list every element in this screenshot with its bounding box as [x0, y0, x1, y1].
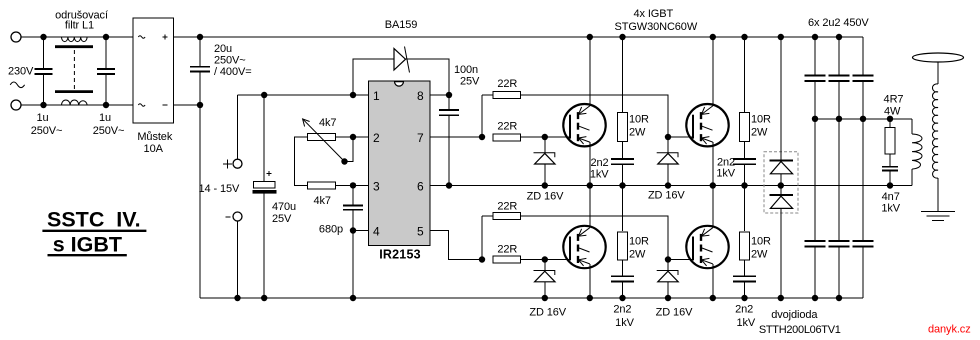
- terminal supply plus: [233, 159, 242, 168]
- inductor L1 top winding: [62, 37, 88, 42]
- node R8 rail: [741, 34, 747, 40]
- capacitor C5 680p: [343, 185, 363, 298]
- diode D3 lower of dvojdioda: [769, 186, 793, 299]
- transistor Q3 IGBT lower-left: [563, 226, 605, 268]
- transistor Q4 IGBT lower-right: [686, 226, 728, 268]
- node B+: [197, 34, 203, 40]
- node 4n7 bottom: [887, 182, 893, 188]
- node ZD4 bottom: [665, 295, 671, 301]
- capacitor bank column 2 bottom 2u2: [829, 241, 850, 298]
- svg-text:1kV: 1kV: [590, 169, 609, 181]
- svg-text:230V: 230V: [8, 66, 34, 78]
- svg-text:10R: 10R: [751, 113, 771, 125]
- pot wiper arrow: [303, 119, 345, 162]
- capacitor bank column 1 bottom 2u2: [805, 241, 826, 298]
- snubber upper-right R8 10R: [740, 37, 750, 159]
- snubber lower-right R10 10R: [740, 186, 750, 276]
- node C9 rail: [619, 295, 625, 301]
- capacitor C11 4n7: [882, 167, 898, 186]
- wire bottom rail: [200, 297, 863, 299]
- node supply minus rail: [234, 295, 240, 301]
- wire plus terminal riser: [237, 95, 239, 159]
- node pin7 split: [479, 134, 485, 140]
- svg-text:danyk.cz: danyk.cz: [928, 324, 971, 336]
- node Q4 emitter rail: [710, 295, 716, 301]
- svg-text:ZD 16V: ZD 16V: [656, 306, 693, 318]
- node Q2 emitter rail: [710, 182, 716, 188]
- node LL gate: [542, 256, 548, 262]
- wire pin1 rail: [238, 94, 369, 96]
- wire pin8 stub: [430, 94, 449, 96]
- transistor Q1 IGBT upper-left: [563, 104, 605, 146]
- svg-text:14 - 15V: 14 - 15V: [199, 183, 241, 195]
- wire R2 to pin3: [336, 184, 369, 186]
- svg-text:20u: 20u: [214, 43, 232, 55]
- wire bottom mains N: [21, 104, 133, 106]
- dual diode dashed box: [764, 152, 798, 213]
- svg-text:1u: 1u: [99, 112, 111, 124]
- svg-text:22R: 22R: [497, 121, 517, 133]
- label 470u plus: [267, 171, 272, 176]
- node bank3 mid: [860, 116, 866, 122]
- wire Q4 collector: [712, 186, 714, 228]
- node dvojdioda bottom rail: [778, 295, 784, 301]
- zener ZD2 16V: [657, 137, 679, 186]
- svg-text:STTH200L06TV1: STTH200L06TV1: [759, 324, 841, 336]
- diode D1 BA159: [394, 47, 410, 73]
- inductor primary winding: [912, 119, 922, 186]
- svg-text:10R: 10R: [629, 113, 649, 125]
- node Q1 collector rail: [587, 34, 593, 40]
- node Q1 emitter rail: [587, 182, 593, 188]
- svg-text:4k7: 4k7: [319, 117, 336, 129]
- svg-text:1kV: 1kV: [615, 317, 634, 329]
- capacitor C9 2n2: [611, 276, 634, 298]
- snubber upper-left R7 10R: [618, 37, 628, 159]
- svg-text:4R7: 4R7: [884, 93, 904, 105]
- svg-text:100n: 100n: [454, 64, 478, 76]
- svg-text:4n7: 4n7: [882, 191, 900, 203]
- svg-text:dvojdioda: dvojdioda: [771, 309, 818, 321]
- capacitor C3 20u: [190, 37, 210, 105]
- svg-text:7: 7: [417, 131, 424, 145]
- node pin5 split: [479, 256, 485, 262]
- wire pin4 stub: [353, 230, 369, 232]
- zener ZD4 16V: [657, 260, 679, 299]
- wire R1 to pin2: [336, 136, 369, 138]
- capacitor C8 2n2: [733, 159, 756, 186]
- node bank2 top: [836, 34, 842, 40]
- svg-text:1kV: 1kV: [716, 168, 735, 180]
- svg-text:BA159: BA159: [385, 19, 418, 31]
- title underline 1: [42, 230, 146, 232]
- wire BA159 loop: [353, 59, 449, 95]
- svg-text:4W: 4W: [884, 105, 901, 117]
- node pin8: [446, 92, 452, 98]
- node BA159 left: [350, 92, 356, 98]
- wire pin7 riser: [481, 95, 483, 137]
- wire to R3: [482, 94, 493, 96]
- svg-text:680p: 680p: [319, 224, 343, 236]
- node 4R7 top: [887, 116, 893, 122]
- svg-text:IR2153: IR2153: [379, 248, 421, 262]
- node bank2 bottom: [836, 295, 842, 301]
- inductor secondary winding: [932, 84, 938, 178]
- svg-text:ZD 16V: ZD 16V: [527, 190, 564, 202]
- bridge rectifier B1: [133, 18, 174, 123]
- zener ZD3 16V: [534, 260, 556, 299]
- transistor Q2 IGBT upper-right: [686, 104, 728, 146]
- topload ellipse: [913, 53, 964, 62]
- wire bridge minus: [174, 104, 201, 106]
- svg-text:25V: 25V: [460, 76, 480, 88]
- node A3: [103, 34, 109, 40]
- node 470u top: [261, 92, 267, 98]
- svg-text:ZD 16V: ZD 16V: [529, 306, 566, 318]
- snubber lower-left R9 10R: [618, 186, 628, 276]
- node bank2 mid: [836, 116, 842, 122]
- wire pin7 HO: [430, 136, 482, 138]
- wire pin5 LO elbow: [430, 231, 482, 260]
- resistor R2 4k7 body: [308, 182, 336, 189]
- wire top mains L: [21, 36, 133, 38]
- resistor R4 22R: [493, 134, 521, 141]
- node wiper: [341, 158, 347, 164]
- wire Q2 collector: [712, 37, 714, 106]
- svg-text:1kV: 1kV: [736, 317, 755, 329]
- label bridge ~ top: [138, 36, 145, 39]
- svg-text:3: 3: [373, 180, 380, 194]
- svg-text:filtr L1: filtr L1: [65, 20, 94, 32]
- node pin3: [350, 182, 356, 188]
- svg-text:2: 2: [373, 131, 380, 145]
- svg-text:10R: 10R: [751, 235, 771, 247]
- svg-text:2n2: 2n2: [735, 303, 753, 315]
- svg-text:SSTC IV.: SSTC IV.: [47, 208, 141, 232]
- wire output rail VS: [430, 185, 912, 187]
- node A2: [40, 102, 46, 108]
- svg-text:/ 400V=: / 400V=: [214, 66, 252, 78]
- svg-text:22R: 22R: [497, 78, 517, 90]
- capacitor C4 470u electrolytic: [253, 95, 277, 298]
- wire minus terminal drop: [237, 221, 239, 298]
- node ZD2 bottom: [665, 182, 671, 188]
- capacitor C7 2n2: [611, 159, 634, 186]
- node pin2: [350, 134, 356, 140]
- title underline 2: [48, 254, 127, 256]
- wire Q1 emitter: [589, 142, 591, 185]
- inductor L1 bottom winding: [62, 100, 88, 105]
- capacitor bank column 3 bottom 2u2: [853, 241, 874, 298]
- terminal mains top: [11, 32, 21, 42]
- node Q3 emitter rail: [587, 295, 593, 301]
- wire Q2 emitter: [712, 142, 714, 185]
- wire Q1 collector: [589, 37, 591, 106]
- zener ZD1 16V: [534, 137, 556, 186]
- wire R4 to UL gate: [521, 136, 571, 138]
- node A1: [40, 34, 46, 40]
- capacitor C6 100n: [439, 95, 459, 186]
- svg-text:250V~: 250V~: [31, 125, 63, 137]
- wire topload to secondary: [937, 62, 939, 84]
- node A4: [103, 102, 109, 108]
- wire cap mid bus: [815, 118, 912, 120]
- svg-text:Můstek: Můstek: [137, 131, 172, 143]
- node bank1 top: [812, 34, 818, 40]
- wire gate UR: [668, 136, 693, 138]
- svg-text:2n2: 2n2: [613, 303, 631, 315]
- svg-text:22R: 22R: [497, 200, 517, 212]
- ground: [921, 212, 955, 221]
- resistor R3 22R: [493, 92, 521, 99]
- svg-text:250V~: 250V~: [93, 125, 125, 137]
- svg-text:s IGBT: s IGBT: [53, 233, 122, 257]
- resistor R11 4R7: [885, 119, 895, 166]
- wire pin5 riser: [481, 216, 483, 260]
- inductor L1 core bar top: [55, 45, 93, 48]
- wire secondary to ground: [937, 178, 939, 212]
- svg-text:6: 6: [417, 180, 424, 194]
- inductor L1 core bar bottom: [55, 90, 93, 93]
- resistor R1 4k7 pot body: [308, 134, 336, 141]
- label bridge ~ bottom: [138, 104, 145, 107]
- svg-text:6x 2u2 450V: 6x 2u2 450V: [808, 17, 869, 29]
- svg-text:25V: 25V: [272, 213, 292, 225]
- node ZD1 bottom: [542, 182, 548, 188]
- wire Q3 collector: [589, 186, 591, 228]
- wire pot bracket: [295, 137, 308, 185]
- wire R3 to UR gate: [521, 95, 669, 137]
- resistor R6 22R: [493, 256, 521, 263]
- wire negative rail down: [199, 105, 201, 298]
- inductor L1 core dashed: [73, 50, 75, 89]
- node C8 rail: [741, 182, 747, 188]
- node LR gate: [665, 256, 671, 262]
- node 680p rail: [350, 295, 356, 301]
- terminal supply minus: [233, 212, 242, 221]
- node pin4: [350, 227, 356, 233]
- svg-text:470u: 470u: [272, 201, 296, 213]
- label bridge +: [162, 34, 167, 39]
- svg-text:10A: 10A: [144, 143, 164, 155]
- node UR gate: [665, 134, 671, 140]
- svg-text:2W: 2W: [629, 126, 646, 138]
- node 470u bottom: [261, 295, 267, 301]
- label plus supply: [223, 160, 232, 169]
- capacitor bank column 1 top 2u2: [805, 37, 826, 241]
- wire R5 to LR gate: [521, 216, 669, 260]
- wire R6 to LL gate: [521, 259, 571, 261]
- node B-: [197, 102, 203, 108]
- label minus supply: [226, 216, 231, 218]
- wire Q3 emitter: [589, 264, 591, 298]
- svg-text:1kV: 1kV: [881, 203, 900, 215]
- capacitor bank column 3 top 2u2: [853, 37, 874, 241]
- svg-text:1u: 1u: [37, 112, 49, 124]
- node bank1 mid: [812, 116, 818, 122]
- wire wiper to pin2 node: [345, 137, 354, 162]
- svg-text:ZD 16V: ZD 16V: [648, 189, 685, 201]
- svg-text:22R: 22R: [497, 243, 517, 255]
- svg-text:STGW30NC60W: STGW30NC60W: [614, 21, 697, 33]
- node 100n bottom: [446, 182, 452, 188]
- label bridge minus: [162, 104, 167, 106]
- node R7 rail: [619, 34, 625, 40]
- wire gate LR: [668, 259, 693, 261]
- svg-text:2n2: 2n2: [590, 157, 608, 169]
- capacitor bank column 2 top 2u2: [829, 37, 850, 241]
- node bank1 bottom: [812, 295, 818, 301]
- wire to R5: [482, 215, 493, 217]
- diode D2 upper of dvojdioda: [769, 37, 793, 186]
- svg-text:4k7: 4k7: [314, 195, 331, 207]
- svg-text:2W: 2W: [751, 248, 768, 260]
- capacitor C10 2n2: [733, 276, 756, 298]
- op-amp U1 IR2153 body: [369, 81, 431, 246]
- svg-text:5: 5: [417, 225, 424, 239]
- node dvojdioda mid: [778, 182, 784, 188]
- wire bridge plus to rail: [174, 36, 864, 38]
- svg-text:1: 1: [373, 89, 380, 103]
- svg-text:2W: 2W: [629, 248, 646, 260]
- node C7 rail: [619, 182, 625, 188]
- node C10 rail: [741, 295, 747, 301]
- node UL gate: [542, 134, 548, 140]
- capacitor C1 1u: [35, 37, 53, 105]
- svg-text:2n2: 2n2: [717, 156, 735, 168]
- svg-text:2W: 2W: [751, 126, 768, 138]
- node dvojdioda top rail: [778, 34, 784, 40]
- capacitor C2 1u: [97, 37, 115, 105]
- resistor R5 22R: [493, 213, 521, 220]
- svg-text:250V~: 250V~: [214, 55, 246, 67]
- svg-text:8: 8: [417, 89, 424, 103]
- node Q2 collector rail: [710, 34, 716, 40]
- terminal mains bottom: [11, 100, 21, 110]
- svg-text:4: 4: [373, 225, 380, 239]
- node ZD3 bottom: [542, 295, 548, 301]
- label ~ mains: [10, 82, 24, 88]
- svg-text:4x IGBT: 4x IGBT: [633, 8, 673, 20]
- wire Q4 emitter: [712, 264, 714, 298]
- svg-text:10R: 10R: [629, 235, 649, 247]
